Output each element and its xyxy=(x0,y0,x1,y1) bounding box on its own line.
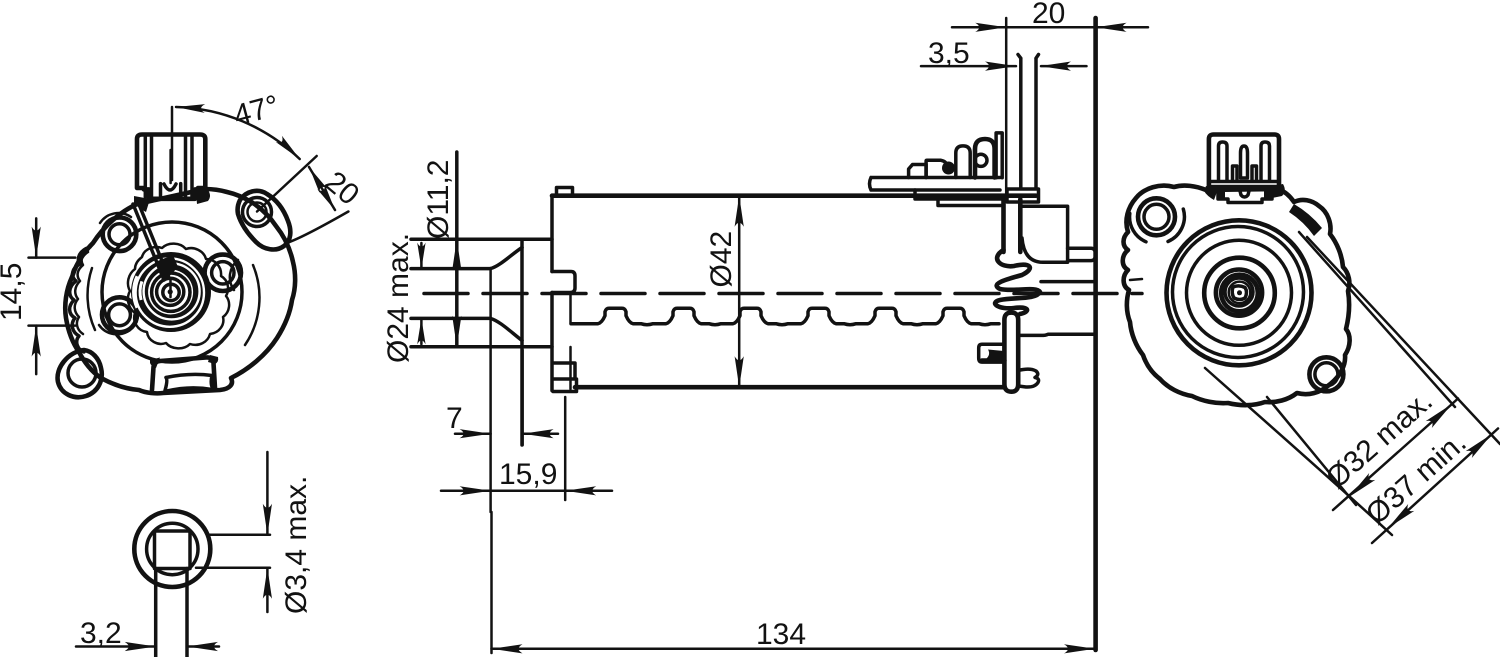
retaining clip xyxy=(995,250,1040,314)
band line L1 xyxy=(1205,368,1392,535)
scalloped pole ring xyxy=(128,244,229,349)
shaft small cylinder top xyxy=(411,267,490,271)
foot dark accents xyxy=(150,355,218,368)
lower-left lug xyxy=(58,350,102,397)
connector base dark wedges xyxy=(1204,184,1285,200)
upper-left lug hole xyxy=(1138,198,1175,235)
dia3,4 ext lines xyxy=(196,535,270,568)
lower feet xyxy=(1018,369,1038,387)
body outline xyxy=(65,189,295,393)
dim 7 ext line right xyxy=(521,350,524,445)
boss white gap wedge xyxy=(134,276,137,307)
dim 20 ext line xyxy=(1005,18,1008,200)
band line U2 xyxy=(1307,237,1500,444)
shaft ring inner xyxy=(147,523,198,574)
bottom foot xyxy=(152,357,215,390)
47deg hole line xyxy=(257,156,317,212)
connector body xyxy=(1209,135,1279,188)
inner can circle xyxy=(102,222,242,362)
dim dia11,2 arrows xyxy=(420,243,423,344)
dim 3,5 line xyxy=(921,65,1087,68)
dia24 top line to flange xyxy=(522,238,552,242)
linkage lower plates xyxy=(915,190,1003,206)
boss inner black rings xyxy=(152,273,190,311)
14,5 dim line xyxy=(35,218,38,374)
dim dia42 line xyxy=(738,196,741,388)
boss below collar xyxy=(1004,199,1021,252)
pin to plate xyxy=(1068,248,1096,260)
lower bracket block xyxy=(979,344,1005,362)
left flange bumps xyxy=(70,247,90,352)
bracket base thick xyxy=(982,358,1004,363)
upper-right lug hole xyxy=(243,198,272,227)
rod collar xyxy=(1007,189,1039,202)
connector inner lines xyxy=(145,136,192,197)
dim 15,9 line xyxy=(441,490,565,493)
housing top edge xyxy=(552,193,1036,198)
linkage block D xyxy=(975,139,995,178)
svg-text:7: 7 xyxy=(446,402,463,435)
svg-text:Ø24 max.: Ø24 max. xyxy=(382,233,415,363)
bolt hole right xyxy=(205,255,241,291)
centerline xyxy=(424,292,1142,296)
shaft small cylinder bottom xyxy=(411,317,490,321)
upper-left lug inner arc xyxy=(1130,209,1185,242)
center tick xyxy=(169,280,172,297)
outline left notch xyxy=(1130,279,1142,280)
linkage backplate xyxy=(996,133,1002,178)
strut joint wedge xyxy=(155,255,178,281)
bracket wedge xyxy=(986,350,1004,361)
face ring 3 xyxy=(1187,240,1292,345)
gear block xyxy=(1020,206,1067,262)
left flange inner line xyxy=(75,252,88,334)
boss white rings outer xyxy=(136,258,204,326)
linkage block B xyxy=(926,160,947,177)
boss rings xyxy=(1216,270,1262,316)
lower-left lug hole xyxy=(68,359,96,387)
housing bottom edge xyxy=(575,385,1004,390)
svg-text:14,5: 14,5 xyxy=(0,263,28,321)
center mark xyxy=(1237,290,1242,295)
dim 7 line xyxy=(455,432,558,435)
foot inner bone xyxy=(165,374,213,391)
square flats xyxy=(155,531,191,569)
linkage hole xyxy=(975,154,987,166)
svg-text:Ø11,2: Ø11,2 xyxy=(422,160,455,240)
dia3,4 dim line xyxy=(266,452,269,612)
linkage pivot dot xyxy=(942,162,955,175)
svg-text:Ø3,4 max.: Ø3,4 max. xyxy=(280,476,313,614)
shaft ring outer xyxy=(134,511,210,587)
mounting plate line xyxy=(1093,18,1098,650)
connector body xyxy=(137,135,205,199)
connector neck xyxy=(1218,187,1272,203)
3,2 dim line xyxy=(76,645,219,648)
dim 134 line xyxy=(492,648,1096,651)
dim dia24 arrows xyxy=(452,239,461,270)
upper-right lug xyxy=(238,191,291,250)
connector notch xyxy=(161,184,181,196)
linkage plate notch xyxy=(915,194,924,200)
svg-text:Ø42: Ø42 xyxy=(705,231,738,288)
47deg arc xyxy=(176,107,300,159)
bolt hole upper-left xyxy=(103,218,137,252)
flange rear line xyxy=(569,293,572,389)
outer face ring 2 xyxy=(1173,227,1304,358)
flange top tab xyxy=(557,188,573,196)
14,5 ext lines xyxy=(29,258,76,326)
boss center xyxy=(166,287,175,296)
mid ring arcs xyxy=(88,265,260,345)
flange nub xyxy=(552,272,575,293)
dia24 cylinder xyxy=(411,239,552,445)
connector base band xyxy=(1211,180,1277,184)
flange bottom foot xyxy=(553,363,577,392)
band line U1 xyxy=(1299,232,1455,407)
linkage block C xyxy=(956,146,970,178)
linkage block A xyxy=(909,165,927,178)
output rod xyxy=(1018,55,1039,189)
band line L2 xyxy=(1267,397,1356,505)
vertical centerline up xyxy=(171,107,174,180)
cone bottom xyxy=(490,318,522,340)
upper right dark arc xyxy=(1289,204,1322,236)
brush strut xyxy=(133,202,169,280)
20 lower line xyxy=(290,212,349,242)
thick ring xyxy=(1204,258,1275,329)
shaft end face / dia24 dim line xyxy=(455,152,459,347)
cone top xyxy=(490,248,522,269)
svg-text:134: 134 xyxy=(756,618,806,651)
arcs around bolt holes xyxy=(99,213,238,334)
dim 15,9 ext line right xyxy=(564,397,567,500)
case upper line to plate xyxy=(1041,280,1096,284)
worm teeth xyxy=(571,308,999,325)
dim 20 line xyxy=(952,26,1148,29)
body outline xyxy=(1123,186,1350,406)
connector stubs xyxy=(1233,166,1257,180)
case lower line to plate xyxy=(1018,334,1095,335)
connector base dark wedges xyxy=(134,190,210,212)
svg-text:15,9: 15,9 xyxy=(499,458,557,491)
connector center pin xyxy=(1241,146,1248,178)
dia37 dim line xyxy=(1372,429,1498,544)
bolt hole lower-left xyxy=(102,297,137,332)
flange front face xyxy=(550,196,554,391)
shaft lines down xyxy=(156,569,187,657)
boss dark disc xyxy=(131,252,211,332)
lower-right lug hole xyxy=(1309,357,1343,391)
outer face ring xyxy=(1167,220,1312,365)
top linkage bar xyxy=(870,178,1001,191)
lower boss bar xyxy=(1004,313,1018,392)
connector neck dark bands xyxy=(1219,187,1271,199)
dim 134 left ext line xyxy=(489,269,492,653)
center square ring xyxy=(1232,286,1246,300)
20 dim double arrow xyxy=(309,167,335,210)
dia32 dim line xyxy=(1333,399,1458,511)
boss inner white disc xyxy=(148,270,193,315)
connector pins xyxy=(1219,142,1270,180)
svg-text:20: 20 xyxy=(1032,0,1065,30)
connector center slot xyxy=(169,150,172,183)
svg-text:3,2: 3,2 xyxy=(80,617,122,650)
